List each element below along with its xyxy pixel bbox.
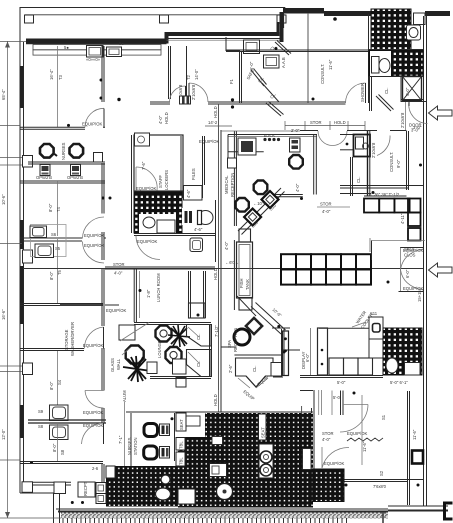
safe partition [225,37,227,51]
svg-text:LUNCH ROOM: LUNCH ROOM [156,273,161,302]
svg-text:4'-0": 4'-0" [322,209,331,214]
toilet in tile room [372,57,380,74]
svg-text:11'-6": 11'-6" [362,441,367,452]
shaft X box [403,77,422,101]
T4 centerline [57,181,59,236]
svg-text:EQUIP/OK: EQUIP/OK [199,139,219,144]
T4 south wall [20,237,82,239]
top cabinet counter rows [33,45,161,50]
grid line across [23,268,423,270]
svg-text:4'-0": 4'-0" [405,87,410,96]
svg-text:RECPT: RECPT [83,481,88,496]
svg-text:8'-0": 8'-0" [48,203,53,212]
wall left of shaft [400,76,402,102]
wall F1 east [239,51,241,103]
svg-text:5'-0": 5'-0" [337,380,346,385]
sink in tile room [407,25,421,40]
top property line [20,7,286,9]
bottom stipple band [61,513,388,519]
glass wall diagonal [120,323,149,342]
svg-text:4'-0": 4'-0" [224,241,229,250]
svg-text:OPW2'B: OPW2'B [36,175,52,180]
svg-text:RECEPTION: RECEPTION [233,328,238,352]
svg-text:65'-4": 65'-4" [1,89,6,100]
white pocket right [303,449,312,470]
svg-text:S11: S11 [370,311,378,316]
svg-text:HOLD: HOLD [334,120,346,125]
B.A.A dots [263,138,266,141]
svg-text:←10'-0→: ←10'-0→ [253,201,271,206]
wall below display area [300,375,383,377]
svg-text:4'-0": 4'-0" [295,183,300,192]
svg-text:S8: S8 [38,424,44,429]
reception monitor 2 [290,138,301,152]
white box left of hatch [106,466,115,478]
nurses counter [28,161,105,163]
S2 door arc [322,447,349,468]
white pocket fixtures in crosshatch [210,464,227,477]
left wall window strips [20,66,24,108]
svg-text:T3: T3 [58,74,63,80]
S4 centerline [57,351,59,420]
zigzag [347,438,383,441]
sink S6 [30,226,47,238]
svg-text:LOUNGE: LOUNGE [157,340,162,358]
svg-text:RECEPTION: RECEPTION [230,173,235,197]
svg-text:2'10x6'8: 2'10x6'8 [400,112,405,128]
corridor top double doors [318,131,333,146]
svg-text:EQUIP/OK: EQUIP/OK [82,122,102,127]
svg-text:2'10x6'8: 2'10x6'8 [371,142,376,158]
exit box [78,482,95,497]
files cabinet [184,186,203,201]
svg-text:14'-2: 14'-2 [208,120,218,125]
svg-text:MEDICAL: MEDICAL [224,175,229,194]
column D top right [414,13,426,25]
svg-text:EQUIP/OK: EQUIP/OK [83,410,103,415]
spa east wall [281,329,283,376]
comb tick marks [63,512,383,523]
wall F1 west [186,46,188,103]
T4 door arc [83,217,105,239]
T4 east wall [101,163,103,214]
corridor walls central [218,104,220,412]
closet shelf box [264,55,280,68]
spa south wall line [234,354,281,356]
consult1 west grid line [307,13,309,103]
closet partition 4 [266,103,281,116]
toilet 2 [198,211,213,225]
sink S8 [50,425,69,440]
consult2 door arc [377,136,390,156]
svg-text:HOLD: HOLD [164,112,169,124]
waiting chair 3 [289,155,303,169]
column B [160,15,169,23]
svg-text:CL.: CL. [356,176,361,183]
nurses chair 1 [40,144,54,158]
entry vestibule wall [405,102,407,130]
right outer wall [423,16,425,506]
spa chair [234,329,250,345]
storage south wall [20,348,84,350]
corridor wall bottom left [130,413,132,466]
svg-text:8'-0": 8'-0" [49,381,54,390]
svg-text:9'-0": 9'-0" [396,159,401,168]
svg-text:NURSES: NURSES [61,142,66,160]
T2 south wall [150,101,170,103]
ns chair 1 [144,424,158,437]
divider line [369,49,423,51]
display counter bottom [329,358,373,375]
ns monitors [160,424,170,436]
svg-text:7'-1": 7'-1" [118,435,123,444]
left wall pilasters [23,156,33,168]
column C [277,15,286,23]
S1 door arc [340,405,368,433]
step between bands [280,12,284,42]
T5 door arc [83,242,105,264]
waiting north wall [271,194,303,196]
svg-text:EQUIP/OK: EQUIP/OK [84,233,104,238]
monitor 2 [71,165,81,176]
lounge chair 2 [166,347,182,363]
small toilet room below [136,236,160,260]
svg-text:TBL: TBL [179,441,184,449]
bottom wall [56,508,388,510]
svg-text:A.A.B: A.A.B [281,57,286,68]
counter seat 2 [262,191,279,208]
bottom right C bracket column [445,503,453,519]
waiting chair 1 [254,181,268,195]
lunch room north wall [105,266,215,268]
supply closet wall [371,241,373,261]
monitor 1 [40,165,50,176]
toilet room small [354,135,371,157]
svg-text:T5: T5 [57,269,62,275]
svg-text:SEAT: SEAT [179,419,184,430]
entry arrow [429,106,453,120]
svg-text:4'-6": 4'-6" [194,227,203,232]
svg-text:FILES: FILES [191,168,196,180]
toilet in staff toilet [143,217,155,228]
left dimension line [7,41,9,518]
S4 south wall hatched [28,419,106,421]
svg-text:OPW2'B: OPW2'B [67,175,83,180]
svg-text:1'6" 36" 36" T'-1/2: 1'6" 36" 36" T'-1/2 [366,192,400,197]
safe box [244,40,260,54]
consult1 east wall [368,14,370,103]
consult2 south wall [340,185,423,187]
lunch west wall [133,269,135,322]
spa shower crosshatch [383,328,422,375]
svg-text:S8: S8 [60,449,65,455]
closet pentagon [236,358,274,387]
spa desk monitor [244,316,264,336]
svg-text:7'-1/2": 7'-1/2" [214,325,219,337]
svg-text:CL.: CL. [196,360,201,367]
svg-text:HOLD: HOLD [213,106,218,118]
lunch counter box [189,303,206,318]
svg-text:LOCKERS: LOCKERS [164,170,169,190]
staff lockers room [134,135,183,191]
corridor wall west of lockers [131,135,133,233]
S2 south wall [340,479,423,481]
closet side box [271,363,282,377]
T5 east wall [101,232,103,260]
left outer wall [19,8,21,493]
svg-text:6'-0": 6'-0" [249,61,254,70]
T4 north wall [20,180,105,182]
svg-text:STOR: STOR [310,120,322,125]
plant star 2 [123,356,151,382]
sink S9 [50,405,69,421]
closet below tile room [369,76,423,78]
staff toilet crosshatch [134,192,182,233]
svg-text:EQUIP/OK: EQUIP/OK [347,431,367,436]
svg-text:SHOWER: SHOWER [360,83,365,102]
svg-text:STOR: STOR [322,431,334,436]
column C hatch connector [277,22,280,36]
svg-text:EQUIP/OK: EQUIP/OK [84,243,104,248]
svg-text:14'-0": 14'-0" [194,69,199,80]
cabinet box 1 [87,46,104,58]
svg-text:15+15: 15+15 [417,290,422,302]
white zone nurses monitors [178,413,205,437]
door frame box right wall [412,451,423,464]
white pocket in staff toilet [139,214,176,233]
svg-text:EQUIP/OK: EQUIP/OK [403,248,423,253]
svg-text:STORAGE: STORAGE [64,329,69,350]
svg-text:7'6x8'0: 7'6x8'0 [373,484,387,489]
svg-text:S9: S9 [38,409,44,414]
storage box top [340,134,354,136]
bottom room east wall [101,464,103,489]
corridor dim line left top [205,125,232,127]
svg-text:STAFF: STAFF [158,175,163,188]
ns chair 2 [144,446,158,459]
bottom rooms top wall [126,411,313,413]
lounge east wall [209,324,211,377]
closet partition 3 [262,83,279,102]
cabinet squares row [364,199,421,241]
svg-text:6'-0": 6'-0" [305,353,310,362]
fish tank [237,242,253,298]
S11 sink boxes [369,317,383,339]
svg-text:5●: 5● [64,45,69,50]
nurses chair 2 [70,144,84,158]
bottom right double line [388,505,448,507]
cased opening [180,96,191,104]
svg-text:5'-0" 6'-1": 5'-0" 6'-1" [390,380,408,385]
closet partition 2 [251,70,264,86]
closet door diagonal [376,96,391,111]
tile room upper crosshatch [371,9,411,50]
svg-text:STOR: STOR [113,262,125,267]
S8 door arc [82,423,104,444]
column mid [94,153,103,163]
S1 west wall [311,408,313,469]
S8 south wall [20,461,103,463]
diagonal counter [238,188,281,231]
medical reception desk top [228,134,317,136]
svg-text:T4: T4 [56,206,61,212]
svg-text:4'-0": 4'-0" [322,437,331,442]
svg-text:←6'0→: ←6'0→ [225,260,239,265]
spa diagonal counter [256,303,286,331]
lounge chair 3 [126,346,144,364]
wall below staff toilet [134,233,215,235]
consult1 mid wall [226,49,369,51]
consult1 south wall [280,101,346,103]
consult2 east wall [406,131,408,190]
cabinet box 2 [107,47,122,57]
S1 dim line [361,395,363,465]
svg-text:1'-8": 1'-8" [146,289,151,298]
counter edge [174,413,176,461]
svg-text:WALL: WALL [116,358,121,370]
S4 east wall [101,348,103,391]
svg-text:FISH: FISH [239,278,244,288]
corridor dim [218,390,220,412]
double doors T2 [170,86,186,102]
lavatory bars [182,208,198,225]
arrow 2 [429,263,453,277]
reception east wall [313,135,315,195]
svg-text:7'-6": 7'-6" [141,161,146,170]
svg-text:2'10x6'8: 2'10x6'8 [191,84,196,100]
svg-text:TANK: TANK [245,279,250,290]
spa south wall [273,374,283,376]
svg-text:S2: S2 [379,470,384,476]
svg-text:11'-6": 11'-6" [328,59,333,70]
svg-text:5'-0: 5'-0 [333,395,341,400]
svg-text:2'-6": 2'-6" [228,364,233,373]
svg-text:4'-11": 4'-11" [400,213,405,224]
S8 centerline [57,423,59,462]
CL label room [350,157,352,196]
sink T5 [35,244,54,258]
lounge north wall [134,322,211,324]
svg-text:2-6: 2-6 [92,466,99,471]
svg-text:10'-6": 10'-6" [1,194,6,205]
display north line [319,327,383,329]
room T3 centerline [57,46,59,127]
lounge small table [173,359,187,374]
svg-text:CL.: CL. [384,87,389,94]
seat strip label left [176,413,186,431]
svg-text:NURSES: NURSES [127,437,132,455]
svg-text:GLASS: GLASS [110,358,115,372]
waiting tables grid [281,254,371,284]
reception side box [228,158,237,168]
door hinge dot [333,17,337,21]
svg-text:4'-6": 4'-6" [186,189,191,198]
svg-text:CONSULT.: CONSULT. [389,152,394,172]
svg-text:CONSULT.: CONSULT. [320,64,325,84]
svg-text:CL.: CL. [252,365,257,372]
staff lockers door arc [136,167,157,191]
column A [25,15,34,23]
storage door arc [84,327,103,349]
top wall band B hatched [283,8,324,14]
shower bench [405,363,421,376]
white boxes in hatch [178,489,195,504]
reception monitor [238,138,256,155]
svg-text:CLOS: CLOS [404,253,416,258]
door arc T3 [85,108,104,127]
display case strip [283,331,289,376]
svg-text:5●: 5● [119,41,124,46]
files room [182,136,184,198]
svg-text:HOLD: HOLD [213,394,218,406]
svg-text:4'-0": 4'-0" [114,271,123,276]
double leaf doors right [400,247,423,249]
svg-text:8'-0": 8'-0" [52,443,57,452]
lounge south wall [150,376,211,378]
seat strip white [259,414,267,440]
svg-text:EQUIP/OK: EQUIP/OK [83,343,103,348]
S4 door arc [85,391,104,409]
stor dim [317,206,350,208]
svg-text:STATION: STATION [133,437,138,455]
svg-text:11'-6": 11'-6" [412,429,417,440]
lounge chair 1 [156,326,172,342]
S2 wall east [407,391,409,505]
diag wall to spa desk [237,296,256,316]
door arc consult1 [346,83,366,103]
svg-text:12'-0": 12'-0" [1,429,6,440]
svg-text:6'-0": 6'-0" [405,269,410,278]
lunch east walls [188,271,190,318]
waiting chair 2 [235,198,249,212]
shower toilet [386,358,398,373]
svg-text:HOLD: HOLD [213,268,218,280]
dim arrows [5,42,10,48]
consult2 west wall [367,131,369,196]
lounge side table [119,325,135,340]
svg-text:4'-0": 4'-0" [158,115,163,124]
svg-text:EQUIP/OK: EQUIP/OK [106,308,126,313]
big crosshatch center [178,413,313,508]
S8 east wall [101,408,103,423]
svg-text:3'-0": 3'-0" [413,125,422,130]
svg-text:EQUIP/OK: EQUIP/OK [137,239,157,244]
svg-text:16'-4": 16'-4" [49,69,54,80]
display shelf vertical [318,328,328,375]
entry door arc [409,102,428,124]
svg-text:2'-0": 2'-0" [291,128,300,133]
display dim line [310,328,312,376]
counter seat 1 [244,209,261,226]
svg-text:EQUIP/OK: EQUIP/OK [136,186,156,191]
drain circle [217,484,233,500]
closet CL lower [187,350,212,377]
svg-text:S4: S4 [57,379,62,385]
closet diagonals [275,42,289,55]
sink counter [31,225,67,257]
T5 centerline [57,239,59,303]
tile room lower crosshatch [369,50,423,76]
svg-text:EQUIP/OK: EQUIP/OK [324,461,344,466]
svg-text:B.A.A: B.A.A [264,133,275,138]
storage north wall [20,303,103,305]
svg-text:8'-0": 8'-0" [49,271,54,280]
svg-text:«0»«0»: «0»«0» [86,57,101,62]
svg-text:16'-6": 16'-6" [1,309,6,320]
wall below shaft [401,101,427,103]
wall T3/T2 [101,46,103,102]
svg-text:S1: S1 [381,414,386,420]
